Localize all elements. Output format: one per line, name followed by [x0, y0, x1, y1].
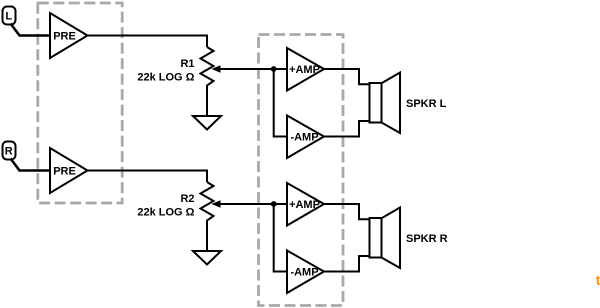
- op-amp +AMP (right channel): [287, 183, 324, 226]
- ground (R2): [193, 251, 221, 265]
- svg-text:22k LOG Ω: 22k LOG Ω: [137, 206, 194, 218]
- ground (R1): [193, 116, 221, 130]
- op-amp PRE (left channel): [50, 13, 88, 58]
- speaker SPKR L: [370, 73, 401, 134]
- wire PRE R output to R2: [88, 171, 208, 183]
- svg-text:-AMP: -AMP: [290, 267, 318, 279]
- svg-text:+AMP: +AMP: [289, 64, 320, 76]
- svg-text:SPKR L: SPKR L: [406, 98, 447, 110]
- wire junction to -AMP R input: [274, 204, 287, 272]
- svg-text:PRE: PRE: [53, 166, 76, 178]
- input connector R: [3, 142, 16, 160]
- node junction R: [271, 201, 277, 207]
- svg-text:L: L: [5, 11, 12, 23]
- wire +AMP L to speaker top: [324, 69, 371, 84]
- op-amp +AMP (left channel): [287, 48, 324, 91]
- op-amp -AMP (left channel): [287, 116, 324, 159]
- svg-text:R1: R1: [180, 58, 194, 70]
- wire R input lead: [11, 159, 51, 171]
- wire -AMP L to speaker bottom: [324, 121, 371, 137]
- svg-text:t: t: [596, 272, 600, 288]
- op-amp -AMP (right channel): [287, 251, 324, 294]
- potentiometer R1: [201, 47, 221, 116]
- potentiometer R2: [201, 182, 221, 251]
- preamp stage dashed box: [38, 3, 122, 203]
- wire R1 wiper to amps L: [219, 68, 287, 70]
- svg-text:R2: R2: [180, 193, 194, 205]
- power amp stage dashed box: [259, 35, 344, 306]
- node junction L: [271, 66, 277, 72]
- svg-text:R: R: [5, 146, 13, 158]
- svg-text:SPKR R: SPKR R: [406, 233, 448, 245]
- wire +AMP R to speaker top: [324, 204, 371, 219]
- wire R2 wiper to amps R: [219, 203, 287, 205]
- svg-text:+AMP: +AMP: [289, 199, 320, 211]
- svg-text:PRE: PRE: [53, 31, 76, 43]
- wire PRE L output to R1: [88, 36, 208, 48]
- wire -AMP R to speaker bottom: [324, 256, 371, 272]
- svg-text:-AMP: -AMP: [290, 132, 318, 144]
- wire L input lead: [11, 24, 51, 36]
- wire junction to -AMP L input: [274, 69, 287, 137]
- speaker SPKR R: [370, 208, 401, 269]
- input connector L: [3, 7, 16, 25]
- op-amp PRE (right channel): [50, 148, 88, 193]
- svg-text:22k LOG Ω: 22k LOG Ω: [137, 71, 194, 83]
